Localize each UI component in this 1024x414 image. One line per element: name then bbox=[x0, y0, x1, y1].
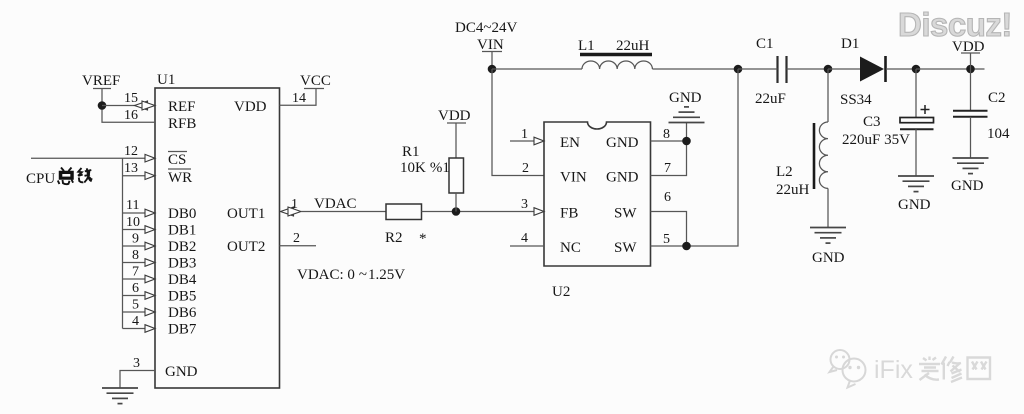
svg-text:DB5: DB5 bbox=[168, 289, 196, 305]
svg-text:DB6: DB6 bbox=[168, 305, 197, 321]
svg-text:22uH: 22uH bbox=[776, 182, 810, 198]
svg-text:12: 12 bbox=[124, 144, 138, 159]
VDD rail bar (R1) bbox=[447, 122, 466, 124]
svg-text:SS34: SS34 bbox=[840, 92, 872, 108]
ground U1 bbox=[102, 388, 138, 404]
svg-text:DB2: DB2 bbox=[168, 239, 196, 255]
wire pin11 bbox=[123, 212, 147, 214]
wire pin10 bbox=[123, 229, 147, 231]
diode D1 bbox=[860, 56, 886, 82]
svg-text:104: 104 bbox=[987, 126, 1010, 142]
svg-text:11: 11 bbox=[126, 198, 139, 213]
node VREF junction dot bbox=[98, 101, 107, 110]
wire node down to SW bbox=[687, 69, 739, 246]
C2 top plate bbox=[953, 110, 988, 112]
pin5 arrowhead bbox=[145, 308, 155, 316]
svg-text:NC: NC bbox=[560, 240, 581, 256]
wire L1 to node bbox=[652, 68, 738, 70]
CPU bus wire pin12 bbox=[31, 157, 146, 159]
wire pin5 bbox=[123, 311, 147, 313]
wire VIN down bbox=[491, 52, 493, 70]
svg-text:7: 7 bbox=[664, 161, 671, 176]
pin13 arrowhead bbox=[145, 172, 155, 180]
node pin5 junction bbox=[682, 242, 691, 251]
wire rail to VDD node bbox=[916, 68, 985, 70]
svg-text:iFix: iFix bbox=[874, 356, 913, 384]
hanzi zong-xian drawn bbox=[58, 168, 92, 185]
L2 core bar bbox=[813, 123, 816, 189]
CPU bus vertical bbox=[122, 158, 124, 328]
pin9 arrowhead bbox=[145, 242, 155, 250]
ground C2 bbox=[953, 158, 989, 174]
svg-text:220uF 35V: 220uF 35V bbox=[842, 132, 910, 148]
wire pin8 bbox=[123, 262, 147, 264]
svg-text:6: 6 bbox=[132, 281, 139, 296]
svg-text:4: 4 bbox=[521, 231, 528, 246]
VCC rail bar bbox=[304, 88, 324, 90]
svg-text:8: 8 bbox=[663, 127, 670, 142]
svg-text:13: 13 bbox=[124, 161, 138, 176]
node R1/R2 junction bbox=[452, 207, 461, 216]
wire pin15 bbox=[102, 105, 136, 107]
wire pin6 bbox=[123, 295, 147, 297]
node VDD junction bbox=[966, 65, 975, 74]
svg-text:R1: R1 bbox=[402, 144, 420, 160]
svg-text:L2: L2 bbox=[776, 164, 793, 180]
svg-text:SW: SW bbox=[614, 240, 637, 256]
ground L2 bbox=[810, 228, 846, 244]
node pin8 junction bbox=[682, 137, 691, 146]
C3 bottom plate bbox=[900, 128, 934, 130]
svg-text:R2: R2 bbox=[385, 230, 403, 246]
wire VDD bar to rail bbox=[970, 53, 972, 69]
wire node to C2 bbox=[970, 69, 972, 111]
wire pin14 bbox=[280, 89, 317, 106]
VDD rail bar (out) bbox=[961, 52, 980, 54]
svg-text:Discuz!: Discuz! bbox=[898, 6, 1012, 43]
svg-text:VDD: VDD bbox=[438, 108, 471, 124]
wire U2 pin7 to pin8 bbox=[651, 123, 687, 176]
svg-text:DB4: DB4 bbox=[168, 272, 197, 288]
ground above U2 (flipped) bbox=[669, 107, 705, 123]
svg-text:EN: EN bbox=[560, 135, 580, 151]
L1 core bar bbox=[580, 53, 652, 57]
svg-text:5: 5 bbox=[132, 298, 139, 313]
svg-text:C1: C1 bbox=[756, 36, 774, 52]
svg-text:WR: WR bbox=[168, 170, 192, 186]
resistor R1 bbox=[449, 158, 464, 193]
svg-text:C2: C2 bbox=[988, 90, 1006, 106]
node VIN junction bbox=[488, 65, 497, 74]
pin10 arrowhead bbox=[145, 226, 155, 234]
hanzi ai-xiu-wang watermark drawn bbox=[919, 357, 990, 383]
wire pin9 bbox=[123, 245, 147, 247]
svg-text:10: 10 bbox=[126, 215, 140, 230]
U2 regulator body bbox=[544, 122, 651, 266]
wire U2 pin4 stub bbox=[510, 245, 544, 247]
wire VREF down bbox=[102, 89, 155, 123]
svg-text:2: 2 bbox=[293, 231, 300, 246]
pin1 OUT1 bidirectional arrow bbox=[281, 207, 302, 216]
pin1 arrowhead (U2) bbox=[534, 137, 544, 145]
pin3 arrowhead (U2) bbox=[534, 208, 544, 216]
pin4 arrowhead bbox=[145, 325, 155, 333]
svg-text:5: 5 bbox=[663, 232, 670, 247]
svg-text:VDD: VDD bbox=[234, 99, 267, 115]
svg-text:22uH: 22uH bbox=[616, 38, 650, 54]
svg-text:L1: L1 bbox=[578, 38, 595, 54]
pin6 arrowhead bbox=[145, 292, 155, 300]
pin8 arrowhead bbox=[145, 259, 155, 267]
svg-text:22uF: 22uF bbox=[755, 91, 786, 107]
svg-text:U2: U2 bbox=[552, 284, 570, 300]
pin15 bidirectional arrow bbox=[135, 101, 156, 110]
VIN rail bar bbox=[482, 51, 502, 53]
wire R1 to junction bbox=[455, 193, 457, 212]
VREF rail bar bbox=[93, 88, 111, 90]
wire VIN to U2 pin2 bbox=[492, 69, 544, 176]
svg-text:4: 4 bbox=[132, 314, 139, 329]
wire C3 to ground bbox=[915, 129, 917, 176]
svg-text:GND: GND bbox=[669, 90, 702, 106]
svg-text:SW: SW bbox=[614, 206, 637, 222]
svg-text:REF: REF bbox=[168, 99, 196, 115]
wire pin13 bbox=[123, 175, 147, 177]
svg-text:OUT1: OUT1 bbox=[227, 206, 265, 222]
node L2 junction bbox=[824, 65, 833, 74]
inductor L1 bbox=[582, 61, 652, 69]
capacitor C2 bbox=[951, 69, 1010, 194]
svg-text:15: 15 bbox=[124, 91, 138, 106]
svg-text:VCC: VCC bbox=[300, 73, 331, 89]
svg-text:16: 16 bbox=[124, 108, 138, 123]
svg-text:VDAC: 0~1.25V: VDAC: 0~1.25V bbox=[297, 267, 405, 283]
svg-text:9: 9 bbox=[132, 232, 139, 247]
ground C3 bbox=[898, 176, 934, 192]
U1 DAC body bbox=[155, 88, 280, 388]
svg-text:RFB: RFB bbox=[168, 116, 196, 132]
svg-text:U1: U1 bbox=[157, 72, 175, 88]
wire R2 to FB bbox=[422, 211, 537, 213]
pin11 arrowhead bbox=[145, 209, 155, 217]
pin12 arrowhead bbox=[145, 154, 155, 162]
node C3 junction bbox=[912, 65, 921, 74]
wire main rail VIN to L1 bbox=[492, 68, 582, 70]
svg-text:3: 3 bbox=[133, 356, 140, 371]
wire L2 to ground bbox=[827, 188, 829, 227]
iFix watermark icon (wechat bubbles) bbox=[830, 350, 866, 388]
svg-text:6: 6 bbox=[664, 190, 671, 205]
wire C1 to node2 bbox=[787, 68, 829, 70]
svg-text:DC4~24V: DC4~24V bbox=[455, 20, 517, 36]
wire node2 down to L2 bbox=[827, 69, 829, 122]
C3 top plate bbox=[900, 118, 934, 123]
wire D1 to C3 node bbox=[886, 68, 916, 70]
svg-text:C3: C3 bbox=[863, 114, 881, 130]
svg-text:10K%1: 10K%1 bbox=[400, 160, 450, 176]
svg-text:DB0: DB0 bbox=[168, 206, 196, 222]
svg-text:2: 2 bbox=[522, 161, 529, 176]
svg-text:DB1: DB1 bbox=[168, 223, 196, 239]
C2 bottom plate bbox=[953, 116, 988, 118]
wire C2 to ground bbox=[970, 117, 972, 158]
wire U2 pin8 bbox=[651, 140, 687, 142]
C3 plus sign bbox=[921, 105, 930, 114]
svg-text:DB7: DB7 bbox=[168, 322, 197, 338]
svg-text:GND: GND bbox=[951, 178, 984, 194]
svg-text:CPU: CPU bbox=[26, 171, 55, 187]
svg-text:VIN: VIN bbox=[477, 37, 504, 53]
wire node2 to D1 bbox=[828, 68, 860, 70]
svg-text:GND: GND bbox=[606, 135, 639, 151]
resistor R2 bbox=[386, 204, 422, 220]
svg-text:14: 14 bbox=[292, 91, 306, 106]
svg-text:VIN: VIN bbox=[560, 170, 587, 186]
svg-text:8: 8 bbox=[132, 248, 139, 263]
wire U2 pin6 to pin5 bbox=[651, 212, 687, 247]
svg-text:VDAC: VDAC bbox=[314, 196, 357, 212]
svg-text:GND: GND bbox=[812, 250, 845, 266]
svg-text:CS: CS bbox=[168, 152, 186, 168]
svg-text:1: 1 bbox=[291, 197, 298, 212]
svg-text:1: 1 bbox=[521, 127, 528, 142]
svg-text:GND: GND bbox=[898, 197, 931, 213]
svg-text:FB: FB bbox=[560, 206, 578, 222]
capacitor C1 plates bbox=[778, 56, 787, 83]
wire pin7 bbox=[123, 278, 147, 280]
wire pin2 OUT2 stub bbox=[280, 245, 317, 247]
wire pin3 GND bbox=[120, 371, 155, 389]
wire U2 pin1 stub bbox=[510, 140, 535, 142]
wire OUT1 to R2 bbox=[301, 211, 386, 213]
wire node to C3 bbox=[915, 69, 917, 118]
capacitor C3 (electrolytic) bbox=[842, 69, 934, 213]
svg-text:*: * bbox=[419, 231, 427, 247]
svg-text:7: 7 bbox=[132, 265, 139, 280]
wire pin4 bbox=[123, 328, 147, 330]
inductor L2 bbox=[819, 122, 828, 188]
svg-text:D1: D1 bbox=[841, 36, 859, 52]
wire VDD to R1 bbox=[455, 123, 457, 158]
svg-text:GND: GND bbox=[165, 364, 198, 380]
svg-text:OUT2: OUT2 bbox=[227, 239, 265, 255]
wire U2 pin5 bbox=[651, 245, 687, 247]
svg-text:DB3: DB3 bbox=[168, 256, 196, 272]
svg-text:GND: GND bbox=[606, 170, 639, 186]
wire node to C1 bbox=[738, 68, 778, 70]
svg-text:3: 3 bbox=[521, 197, 528, 212]
pin7 arrowhead bbox=[145, 275, 155, 283]
node switch junction bbox=[734, 65, 743, 74]
svg-text:VREF: VREF bbox=[82, 73, 120, 89]
